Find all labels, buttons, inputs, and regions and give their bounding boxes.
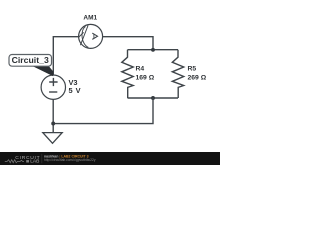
node: ground junction: [51, 122, 55, 126]
wire: return path right-to-left: [53, 98, 153, 124]
resistor R4: [122, 50, 133, 98]
node: top junction: [151, 48, 155, 52]
CircuitLab logo: waveform: [5, 160, 24, 163]
wire: top bus between R4 and R5: [128, 49, 179, 51]
node label Circuit_3 (callout): [9, 55, 53, 77]
svg-text:R4: R4: [136, 66, 145, 73]
svg-text:Circuit_3: Circuit_3: [12, 55, 49, 65]
svg-text:AM1: AM1: [83, 14, 97, 21]
svg-text:http://circuitlab.com/c/gpvutb: http://circuitlab.com/c/gpvutbtbc22y: [44, 158, 96, 162]
voltage source V3: [41, 75, 65, 99]
divider: [41, 154, 43, 163]
CircuitLab logo: LAB: [26, 160, 29, 162]
resistor R5: [172, 50, 183, 98]
node: bottom junction: [151, 96, 155, 100]
wire: top horizontal left segment (corner to ammeter): [53, 37, 78, 75]
ground: [43, 133, 62, 144]
svg-text:5 V: 5 V: [69, 86, 81, 95]
wire: V3 bottom to ground: [52, 100, 54, 133]
svg-text:169 Ω: 169 Ω: [136, 74, 155, 81]
svg-text:LAB: LAB: [30, 159, 39, 165]
svg-text:R5: R5: [188, 66, 197, 73]
svg-text:269 Ω: 269 Ω: [188, 74, 207, 81]
ammeter AM1: [78, 24, 102, 48]
footer watermark bar: [0, 152, 220, 165]
wire: bottom bus between R4 and R5: [128, 97, 179, 99]
wire: top horizontal right segment (ammeter to right drop): [103, 37, 153, 50]
